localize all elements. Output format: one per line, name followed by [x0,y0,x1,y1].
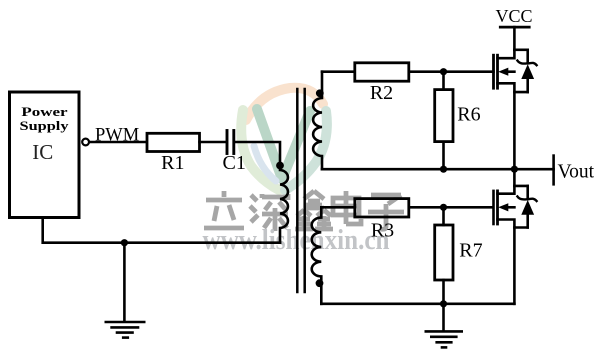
ground (left) [106,322,144,338]
char 子 [368,195,404,229]
resistor R7 leads [442,207,445,303]
wire VCC to MOSFET drain [513,27,516,50]
resistor R6 [435,90,453,142]
svg-text:Vout: Vout [558,162,595,183]
transformer secondary winding bottom [312,207,322,303]
wire to left ground [123,243,126,321]
wire Vout rail [322,168,554,171]
svg-text:IC: IC [32,140,53,164]
wire PWM output [89,141,146,144]
transformer core [296,89,299,292]
polarity dot secondary top [316,89,324,97]
svg-text:R6: R6 [457,103,480,125]
char 深 [250,194,288,231]
node: PWM open terminal [82,139,89,146]
ground (right) [426,331,462,347]
svg-text:PWM: PWM [95,126,139,146]
node MOSFET source/Vout [511,166,518,173]
wire secondary-bottom to R3 [321,206,355,209]
wire C1 to transformer primary [235,142,280,165]
MOSFET Q1 (top) [494,50,537,169]
node R3/R7/gate [440,204,447,211]
transformer primary winding [280,165,288,243]
wire primary bottom rail [43,218,280,243]
wire R2 to gate node [409,70,494,73]
char 立 [204,191,244,228]
svg-text:C1: C1 [223,152,246,174]
power supply IC box U1 [10,92,80,218]
wire bottom rail [321,302,514,305]
logo green V [257,109,310,179]
polarity dot primary [276,162,284,170]
svg-text:R7: R7 [459,240,482,262]
wire R3 to gate node [409,206,493,209]
capacitor C1 [226,131,229,154]
svg-text:R3: R3 [371,220,394,242]
wire R1 to C1 [200,141,226,144]
svg-text:R1: R1 [161,152,184,174]
node IC/ground [121,239,128,246]
resistor R7 [435,225,453,280]
resistor R3 [355,199,409,217]
MOSFET Q2 (bottom) [494,169,537,304]
char 鑫 [295,191,333,229]
resistor R1 [147,133,200,151]
node R7/ground [440,300,447,307]
transformer secondary winding top [313,72,322,170]
body diode D2 [526,186,529,199]
wire to right ground [442,304,445,331]
node R6/Vout rail [440,166,447,173]
char 电 [333,191,361,224]
resistor R2 [355,63,409,81]
body diode D1 [526,50,529,63]
junction and polarity dots [121,68,518,307]
logo pale blue swoosh [254,146,276,181]
svg-text:Supply: Supply [20,118,70,133]
svg-text:Power: Power [21,104,67,119]
svg-text:R2: R2 [370,82,393,104]
Vout terminal bar [552,156,555,185]
VCC terminal bar [500,26,529,29]
wire secondary-top to R2 [322,70,355,73]
resistor R6 leads [442,72,445,170]
svg-text:VCC: VCC [495,6,532,26]
logo peach top crescent [246,88,323,120]
logo teal right crescent [285,111,327,190]
node R2/R6/gate [440,68,447,75]
polarity dot secondary bottom [316,279,324,287]
logo light green left crescent [241,110,279,190]
